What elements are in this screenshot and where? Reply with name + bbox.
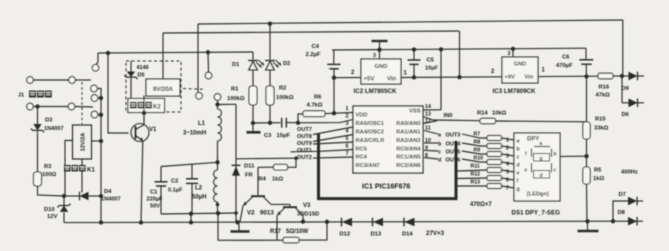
svg-text:+9V: +9V [505,75,516,81]
diode D11 [232,164,241,166]
wire R4 to V2 [257,167,259,196]
wire L1 node to D11 column [218,103,237,105]
svg-text:4148: 4148 [137,65,149,71]
node R2 bottom [268,121,272,125]
node IC2 gnd rail [377,48,381,52]
svg-text:DS1 DPY_7-SEG: DS1 DPY_7-SEG [512,210,561,217]
svg-text:1N4007: 1N4007 [44,126,64,132]
svg-text:D5: D5 [138,73,145,79]
wire pin12 stub [423,121,437,124]
node ground right [585,219,589,223]
svg-text:a: a [540,141,543,147]
node L2 bottom [216,203,220,207]
svg-text:R10: R10 [474,156,484,162]
LED D1 [248,60,258,62]
node wire A L junction [215,160,219,164]
wire K1 coil left to D10 node [65,141,73,196]
wire OUT1 to pin6 [291,150,354,152]
diode D4 [64,195,80,197]
node trunk D4 row [99,194,103,198]
svg-text:1kΩ: 1kΩ [272,177,283,183]
wire R3 to D10 node [38,186,65,196]
svg-text:d: d [438,158,441,164]
svg-text:400Hz: 400Hz [621,170,638,176]
contact K2 NC [214,94,221,101]
resistor R11 [487,168,502,173]
node 9V rail drop [457,75,461,79]
svg-text:R9: R9 [474,148,481,154]
svg-text:50V: 50V [150,204,160,210]
svg-text:D8: D8 [618,210,626,216]
node battery rail junction [106,51,110,55]
svg-text:RA1/AN1: RA1/AN1 [396,130,420,136]
wire D1 drop [252,52,254,60]
svg-text:3: 3 [506,154,509,160]
svg-text:D6: D6 [622,112,630,118]
wire row B right [75,106,93,109]
svg-text:RC0/AN4: RC0/AN4 [396,147,421,153]
ground rail [332,48,586,50]
svg-text:100kΩ: 100kΩ [227,96,245,102]
wire OUT8 to pin3 [313,127,353,135]
wire R1 to OUT7 wire [252,105,254,123]
wire trunk [100,98,102,223]
linkage K2 dashed [183,88,205,91]
relay K2 dashed box [126,61,181,112]
svg-text:D13: D13 [371,232,382,238]
svg-text:1N4007: 1N4007 [101,197,121,203]
svg-text:IC3 LM7809CK: IC3 LM7809CK [493,88,537,95]
node C6 Vin [584,74,588,78]
node trunk d [99,113,103,117]
svg-text:e: e [525,168,528,174]
wire D7 branch [613,201,628,221]
outer box IC1 [319,134,457,199]
inductor L2 [217,162,219,170]
svg-text:D1: D1 [232,62,240,68]
transistor V2 [251,195,265,197]
connector J1 terminal A2 [69,77,76,84]
svg-text:50µH: 50µH [192,195,206,201]
svg-text:27V×3: 27V×3 [426,230,445,237]
wire V2 emitter [240,206,243,222]
segment g [534,154,550,162]
wire pin to OUT4 [424,142,438,144]
wire IC2 out to IC3 [401,76,502,79]
svg-text:FR: FR [245,173,254,179]
svg-text:4.7kΩ: 4.7kΩ [307,103,323,109]
node D7 branch [611,219,615,223]
node wire B drop [189,212,193,216]
svg-text:c: c [438,150,441,156]
node K1 trunk [99,139,103,143]
node C5 9V [412,75,416,79]
svg-text:e: e [517,171,520,177]
wire drop wire B to ground rail [190,214,192,223]
capacitor C4 [333,50,335,64]
wire +5V vertical [333,78,335,114]
display DS1 DPY_7-SEG box [514,133,560,201]
svg-text:IC1 PIC16F676: IC1 PIC16F676 [362,184,410,191]
node V1 collector at K2 [142,111,146,115]
svg-text:Vin: Vin [387,77,397,83]
resistor R4 [288,158,297,167]
node trunk ground rail [99,220,103,224]
node K2 common on rail2 [206,50,210,54]
svg-text:R17: R17 [270,229,282,235]
wire R13 from IC1 [457,185,487,187]
svg-text:RA5/OSC1: RA5/OSC1 [356,121,384,127]
node D9 junction [620,74,624,78]
zener D14 [403,218,405,227]
resistor R7 [487,136,502,141]
resistor R13 [487,184,502,189]
svg-text:C6: C6 [562,55,570,61]
wire D11 column [235,104,237,222]
wire drop to R17 row [217,213,219,240]
svg-text:DPY: DPY [527,137,539,143]
ground at V2 [238,222,240,231]
zener D13 [372,218,374,227]
wire +5V to IC2 [334,77,361,79]
svg-text:10µF: 10µF [425,66,438,72]
svg-text:2: 2 [506,146,509,152]
svg-text:OUT8: OUT8 [297,134,312,140]
connector J1 terminal B1 [27,103,34,110]
resistor R12 [487,176,502,181]
node IC3 gnd rail [511,47,515,51]
wire IC3 gnd stem [512,49,514,57]
svg-text:RC5: RC5 [356,147,367,153]
wire R12 from IC1 [457,177,487,180]
node trunk c [99,96,103,100]
svg-text:R11: R11 [471,164,480,170]
svg-text:RA4/OSC2: RA4/OSC2 [356,130,384,136]
segment f b [531,149,533,158]
relay K2 coil box [146,79,180,96]
svg-text:R5: R5 [594,168,602,174]
capacitor C1 [160,167,162,182]
svg-text:f: f [517,179,519,185]
svg-text:9013: 9013 [260,210,274,217]
diode D5 [130,61,132,72]
svg-text:470Ω×7: 470Ω×7 [470,202,492,208]
node VDD junction [332,111,336,115]
wire V3 right leg to rail [302,215,304,221]
svg-text:R13: R13 [471,180,481,186]
svg-text:9V/20A: 9V/20A [153,87,174,93]
resistor R6 [298,114,303,123]
linkage K1 dashed [81,82,83,124]
svg-text:2.2µF: 2.2µF [306,52,321,58]
wire D2 to R2 [269,70,271,86]
svg-text:J1: J1 [18,93,24,99]
wire V1 base from rail2 [108,53,129,133]
connector J1 terminal A1 [27,77,34,84]
wire VSS vertical [440,49,442,109]
regulator IC3 LM7809CK [502,57,538,83]
segment a [534,146,550,148]
wire R12 to display [502,178,515,180]
svg-text:100Ω: 100Ω [42,172,57,178]
wire R10 to display [502,162,515,164]
node wire B ground rail [189,220,193,224]
ground symbol IC2 [372,40,388,42]
resistor R10 [487,160,502,165]
svg-text:g: g [540,156,543,162]
svg-text:V1: V1 [149,127,157,133]
regulator IC2 LM7805CK [361,59,401,84]
resistor R15 [583,122,590,139]
wire R13 to display [502,186,515,188]
svg-text:IC2 LM7805CK: IC2 LM7805CK [354,88,398,95]
svg-text:RA0/AN0: RA0/AN0 [396,121,420,127]
node D11 wire B [234,211,238,215]
wire OUT9b to pin5 [313,142,353,144]
svg-text:V2: V2 [247,210,255,217]
svg-text:R4: R4 [259,177,267,183]
ground rail bottom [64,221,613,222]
diode D3 [37,107,39,125]
svg-text:12V/2A: 12V/2A [81,133,87,152]
wire display b to node [560,155,587,157]
svg-text:OUT6: OUT6 [446,158,461,164]
node R1 bottom [251,121,255,125]
svg-text:OUT9: OUT9 [297,141,312,147]
svg-text:VSS: VSS [409,109,421,115]
svg-text:d: d [517,163,520,169]
svg-text:2: 2 [346,114,349,120]
ground symbol right [587,221,589,230]
wire elbow contact b to trunk [97,89,101,98]
segment e c [531,163,533,173]
node D10 [62,194,66,198]
svg-text:RC1/AN5: RC1/AN5 [396,155,420,161]
svg-text:R15: R15 [595,117,606,123]
wire B bottom [161,213,236,214]
svg-text:C1: C1 [150,190,158,196]
wire +12V top rail [198,20,623,24]
node R17 rail [325,220,329,224]
svg-text:OUT3: OUT3 [446,133,461,139]
svg-text:VDD: VDD [356,113,368,119]
svg-text:R8: R8 [474,140,481,146]
microcontroller IC1 PIC16F676 box [353,106,423,173]
wire battery positive rail [98,52,253,53]
wire drop rail1 right end to D9 node [622,20,624,76]
svg-text:D11: D11 [244,164,255,170]
capacitor C3 [281,118,283,128]
svg-text:GND: GND [514,62,526,68]
capacitor C5 [413,50,415,60]
svg-text:c: c [517,155,520,161]
svg-text:RC3/AN7: RC3/AN7 [356,163,380,169]
contact K2 common [207,52,210,72]
contact K1 c [91,95,98,102]
svg-text:3DD15D: 3DD15D [297,212,319,218]
svg-text:33kΩ: 33kΩ [594,126,609,132]
wire R8 to display [502,146,515,148]
svg-text:d: d [540,173,543,179]
svg-text:D3: D3 [45,118,53,124]
resistor R1 [249,86,257,105]
wire D2 drop [269,24,271,60]
wire OUT2 net [236,157,296,160]
svg-text:D7: D7 [619,192,626,198]
wire VSS to pin14 [423,109,441,111]
node C3 R6 junction [296,121,300,125]
capacitor C2 [191,164,193,178]
inductor L1 [217,105,219,110]
contact K1 d [91,111,98,118]
wire row A [33,79,68,81]
svg-text:L1: L1 [198,121,206,127]
svg-text:R12: R12 [471,172,481,178]
node V1 emitter ground [139,220,143,224]
diode D6 [629,99,638,108]
wire V1 collector to K2 coil [143,96,145,125]
svg-text:OUT7: OUT7 [297,127,312,133]
svg-text:D12: D12 [340,232,351,238]
node D11 ground rail [235,220,239,224]
svg-text:1: 1 [506,138,509,144]
svg-text:[LEDgn]: [LEDgn] [527,192,549,198]
svg-text:6: 6 [346,144,349,150]
svg-text:K2: K2 [153,105,161,111]
svg-text:OUT2: OUT2 [297,155,312,161]
wire R5 to ground rail [586,184,589,221]
resistor R8 [487,144,502,149]
wire VDD to IC1 pin1 [334,112,353,115]
wire row B [33,106,68,108]
contact K2 NO [196,93,203,100]
wire contact c to trunk [98,97,101,99]
wire R11 to display [502,170,515,172]
svg-text:1: 1 [346,106,349,112]
wire V2 to V3 [271,203,290,205]
svg-text:GND: GND [375,64,388,70]
node R4 OUT2 [294,157,298,161]
svg-text:OUT5: OUT5 [446,150,461,156]
capacitor C6 [585,48,587,59]
svg-text:470µF: 470µF [556,63,573,69]
svg-text:4: 4 [346,129,349,135]
wire K1 coil to D4 row [81,159,83,193]
node C5 gnd [412,47,416,51]
wire IC3 Vin [538,75,598,77]
zener D12 [341,218,343,227]
resistor R14 [480,118,496,123]
wire V1 emitter to ground rail [141,141,143,223]
diode D7 [628,197,637,206]
resistor R2 [266,86,274,105]
wire contact d to trunk [98,114,101,116]
svg-text:1kΩ: 1kΩ [593,176,604,182]
svg-text:L2: L2 [195,186,203,192]
svg-text:RC4: RC4 [356,155,368,161]
svg-text:C4: C4 [312,44,320,50]
node row B junction [35,104,39,108]
node wire B to R17 [216,211,220,215]
svg-text:7: 7 [346,151,349,157]
node L1 top [215,102,219,106]
wire drop 9V rail right end [459,31,461,77]
svg-text:14: 14 [425,104,431,110]
wire OUT7 to pin2 [298,120,353,123]
svg-text:7: 7 [506,186,509,192]
wire drop to K2 NO contact [197,24,199,92]
svg-text:R7: R7 [474,132,481,138]
svg-text:220µF: 220µF [147,197,164,203]
LED D2 [265,60,275,62]
wire R17 to rail [299,222,327,240]
label relay K2 [130,102,137,109]
svg-text:D10: D10 [44,207,55,213]
svg-text:K1: K1 [87,167,95,174]
node R5 display [584,154,588,158]
svg-text:b: b [554,152,557,158]
resistor R5 [583,167,590,184]
resistor R17 [283,237,299,242]
svg-text:RC2/AN6: RC2/AN6 [396,163,420,169]
wire R14 to R15 node [496,120,587,123]
wire pin to OUT5 [424,149,438,152]
wire R17 row [218,239,283,241]
contact K1 a [92,65,99,72]
ground at C3 [252,123,254,132]
svg-text:5Ω/10W: 5Ω/10W [286,229,308,235]
relay K2 label box [128,99,165,113]
svg-text:C2: C2 [171,179,178,185]
zener D10 [63,196,65,206]
wire pin to OUT6 [424,158,438,159]
resistor R3 [34,172,42,186]
svg-text:100kΩ: 100kΩ [276,95,294,101]
wire K1 coil right to trunk [92,140,102,142]
wire R15 to node [586,139,588,167]
svg-text:g: g [517,187,520,193]
svg-text:R14: R14 [477,111,488,117]
wire D1 to R1 [252,70,254,86]
wire OUT4 to R8 [462,143,487,146]
relay K1 coil box [73,125,92,159]
wire R9 to display [502,154,515,156]
svg-text:6: 6 [506,178,509,184]
wire OUT6 to R10 [462,159,487,162]
node V3 rail [301,219,305,223]
svg-text:3~10mH: 3~10mH [183,131,206,137]
wire R2 to OUT7 wire [269,105,271,123]
connector J1 terminal B2 [68,103,75,110]
svg-text:4: 4 [506,162,509,168]
svg-text:IN0: IN0 [444,113,453,119]
node rail1 D2 [268,22,272,26]
svg-text:R6: R6 [314,95,322,101]
svg-text:D14: D14 [402,232,413,238]
wire row A right [75,79,91,81]
contact K1 b [91,85,98,92]
svg-text:12: 12 [425,119,431,125]
svg-text:RA3/CRLR: RA3/CRLR [356,138,385,144]
svg-text:5: 5 [346,136,349,142]
svg-text:47kΩ: 47kΩ [596,93,611,99]
svg-text:3: 3 [373,53,376,59]
wire elbow rail2 to K1 contact [96,53,98,65]
svg-text:D2: D2 [283,61,290,67]
svg-text:R1: R1 [231,87,239,93]
svg-text:D4: D4 [104,189,112,195]
svg-text:R16: R16 [599,85,610,91]
